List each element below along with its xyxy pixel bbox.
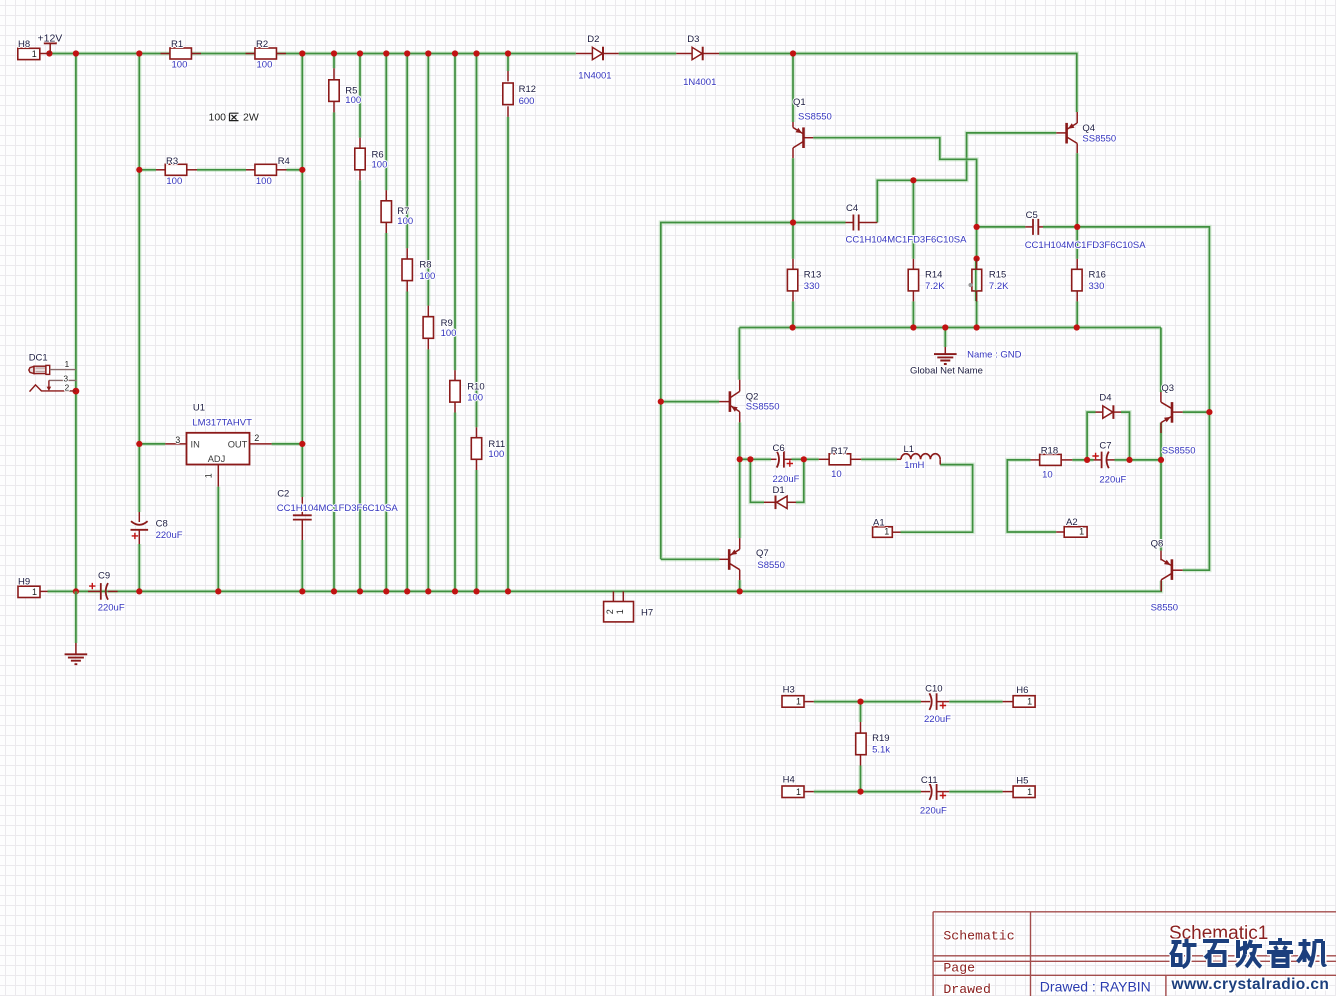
wire R16 to mid rail (1075, 301, 1079, 327)
wire x=661 to Q7 base (661, 557, 720, 561)
svg-text:100: 100 (172, 59, 188, 70)
svg-text:C9: C9 (98, 570, 110, 581)
svg-text:R15: R15 (989, 270, 1006, 281)
wire C10 right to H6 (949, 699, 1002, 703)
junction dot R14 node (910, 177, 916, 183)
wire Q1 emitter from top rail (791, 54, 795, 123)
wire vertical column x=139 top rail to U1 IN node (137, 54, 141, 444)
capacitor C4 CC1H104MC1FD3F6C10SA (846, 222, 854, 224)
wire C6 node to Q7 emitter (738, 459, 742, 538)
wire x=1209 Q3 base node down to Q8 base (1183, 412, 1210, 570)
wire U1 ADJ pin to bottom rail (216, 487, 220, 592)
svg-text:100: 100 (345, 95, 361, 106)
resistor R13 330 (792, 259, 794, 270)
resistor R16 330 (1076, 259, 1078, 270)
svg-text:10: 10 (831, 469, 842, 480)
wire R3 row from x=139 node (139, 168, 156, 172)
regulator U1 LM317TAHVT (165, 443, 186, 445)
junction dot R3 row right (299, 167, 305, 173)
svg-text:1: 1 (203, 473, 213, 478)
svg-text:1: 1 (615, 609, 625, 614)
svg-text:R8: R8 (419, 260, 431, 271)
svg-text:3: 3 (175, 435, 180, 445)
svg-text:R12: R12 (519, 84, 536, 95)
wire C7 right lead (1115, 458, 1130, 462)
svg-text:R2: R2 (256, 39, 268, 50)
wire Q3 node down to Q8 emitter (1159, 460, 1163, 551)
wire top rail D3 to Q4 emitter corner (719, 54, 1077, 113)
wire R18 left to A2 loop (1007, 460, 1056, 532)
wire Q1 collector to C4 node (792, 148, 794, 158)
transistor Q7 S8550 (719, 558, 729, 560)
wire bus column x=476 (R11) (474, 54, 478, 428)
resistor R4 (246, 169, 255, 171)
svg-text:100: 100 (419, 271, 435, 282)
svg-text:C4: C4 (846, 203, 858, 214)
svg-text:R14: R14 (925, 270, 942, 281)
wire Q3 emitter node vertical (1159, 423, 1163, 460)
svg-text:1: 1 (1027, 697, 1032, 707)
wire C7 node to Q3 emitter node (1130, 458, 1162, 462)
svg-text:A2: A2 (1066, 517, 1078, 528)
wire Q4 collector down (1076, 143, 1078, 153)
wire D4 loop left (1087, 412, 1095, 460)
wire Q1 base staircase to C5 node (813, 138, 976, 227)
svg-text:220uF: 220uF (773, 474, 800, 485)
svg-text:Q1: Q1 (793, 97, 806, 108)
svg-text:R16: R16 (1089, 270, 1106, 281)
svg-text:C11: C11 (921, 775, 938, 786)
svg-text:ADJ: ADJ (208, 454, 226, 464)
svg-text:H6: H6 (1016, 685, 1028, 696)
wire Q2 emitter to C6 node (739, 412, 741, 423)
svg-text:R17: R17 (831, 446, 848, 457)
header H6 (1003, 701, 1014, 703)
junction dot Q2 base node (658, 399, 664, 405)
svg-text:Page: Page (943, 961, 975, 976)
junction dot U1 IN node (136, 441, 142, 447)
junction dots mid rail (790, 324, 796, 330)
title block frame (933, 912, 1336, 996)
wire Q4 collector node to R16 (1075, 227, 1079, 259)
wire column x=302 C2 to bottom rail (300, 540, 304, 591)
svg-text:DC1: DC1 (29, 353, 48, 364)
svg-text:220uF: 220uF (924, 714, 951, 725)
wire mid GND stem (943, 328, 947, 348)
svg-text:220uF: 220uF (1099, 474, 1126, 485)
resistor R8 (406, 248, 408, 258)
capacitor C6 220uF (771, 458, 777, 460)
wire C6 to D1 node (750, 457, 771, 461)
power flag +12V (49, 43, 51, 53)
wire bus column x=386 (R7) (384, 54, 388, 191)
svg-text:1: 1 (1027, 787, 1032, 797)
header H8 (18, 48, 40, 59)
svg-text:D4: D4 (1099, 393, 1111, 404)
junction dot H3 row (857, 699, 863, 705)
diode D4 (1096, 411, 1103, 413)
wire bus column x=407 (R8) (405, 54, 409, 249)
wire C5 node to Q3/Q8 base column x=1209 (1077, 227, 1209, 412)
transistor Q1 SS8550 (792, 122, 794, 128)
svg-text:10: 10 (1042, 469, 1053, 480)
transistor Q8 S8550 (1160, 551, 1162, 561)
svg-text:L1: L1 (904, 444, 915, 455)
wire Q7 collector to bottom rail (738, 580, 742, 591)
wire C11 right to H5 (949, 789, 1002, 793)
wire C6 right lead to R17 (792, 457, 819, 461)
header A2 (1064, 527, 1087, 538)
junction dots C6 row (737, 456, 743, 462)
svg-text:5.1k: 5.1k (872, 745, 890, 756)
svg-text:220uF: 220uF (98, 603, 125, 614)
junction dot R3 row left (136, 167, 142, 173)
junction dots top rail (46, 50, 52, 56)
capacitor C9 220uF (88, 590, 101, 592)
svg-text:CC1H104MC1FD3F6C10SA: CC1H104MC1FD3F6C10SA (277, 503, 399, 514)
svg-text:330: 330 (1089, 281, 1105, 292)
wire C5 right to Q4 collector node (1043, 225, 1077, 229)
svg-text:2W: 2W (243, 111, 259, 123)
svg-text:330: 330 (804, 281, 820, 292)
junction dot C5 / R15 node (974, 224, 980, 230)
wire R3 to R4 (197, 168, 246, 172)
svg-text:2: 2 (65, 382, 70, 392)
wire vertical column x=302 top rail to OUT node (300, 54, 304, 444)
svg-text:IN: IN (191, 439, 200, 449)
resistor R6 (359, 138, 361, 149)
capacitor C5 CC1H104MC1FD3F6C10SA (1025, 226, 1033, 228)
wire D4 loop right (1121, 412, 1130, 460)
svg-text:220uF: 220uF (920, 805, 947, 816)
svg-text:H8: H8 (18, 39, 30, 50)
wire H4 to C11 (814, 789, 861, 793)
wire L1 to A1 loop (901, 465, 973, 533)
header A1 (873, 527, 893, 538)
resistor R12 (507, 71, 509, 81)
svg-text:1N4001: 1N4001 (578, 70, 611, 81)
diode D2 1N4001 (576, 53, 593, 55)
svg-text:100: 100 (488, 449, 504, 460)
wire bus column x=428 (R9) (426, 54, 430, 306)
junction dot DC1 pin2 (73, 388, 80, 395)
wire C6 node jumper (740, 457, 751, 461)
svg-text:100: 100 (257, 59, 273, 70)
svg-text:C10: C10 (925, 684, 942, 695)
svg-text:2: 2 (605, 609, 615, 614)
svg-text:220uF: 220uF (156, 530, 183, 541)
svg-text:H9: H9 (18, 577, 30, 588)
transistor Q4 SS8550 (1076, 112, 1078, 123)
connector H7 (612, 591, 614, 601)
svg-text:100: 100 (397, 216, 413, 227)
wire top rail D2 to D3 (619, 51, 677, 55)
svg-text:U1: U1 (193, 402, 205, 413)
svg-text:1: 1 (32, 49, 37, 59)
svg-text:R19: R19 (872, 733, 889, 744)
svg-text:1: 1 (32, 587, 37, 597)
svg-text:C8: C8 (156, 518, 168, 529)
svg-text:R10: R10 (467, 382, 484, 393)
junction dot H4 row (857, 789, 863, 795)
wire R14 to mid rail (911, 301, 915, 327)
svg-text:R4: R4 (278, 156, 290, 167)
junction dot Q3 base corner (1206, 409, 1212, 415)
wire column x=139 C8 to bottom rail (137, 544, 141, 591)
wire C4 node to R13 (791, 223, 795, 259)
svg-text:Q7: Q7 (756, 548, 769, 559)
svg-text:R3: R3 (166, 156, 178, 167)
svg-text:100: 100 (256, 176, 272, 187)
svg-text:100: 100 (166, 176, 182, 187)
ground GND global net (934, 354, 957, 364)
inductor L1 1mH (897, 458, 901, 460)
resistor R10 (454, 370, 456, 380)
svg-text:100: 100 (441, 328, 457, 339)
header H4 (782, 786, 804, 798)
wire D1 loop left (750, 459, 764, 502)
svg-text:1: 1 (1079, 527, 1084, 537)
wire R18 right to C7 node (1072, 458, 1093, 462)
wire +12V top rail H8 to D2 (49, 51, 575, 55)
wire mid GND rail (737, 328, 741, 380)
svg-text:100: 100 (209, 111, 227, 123)
svg-text:CC1H104MC1FD3F6C10SA: CC1H104MC1FD3F6C10SA (1025, 240, 1147, 251)
svg-text:H5: H5 (1016, 775, 1028, 786)
svg-text:SS8550: SS8550 (798, 111, 832, 122)
wire through R15 to mid rail (974, 259, 978, 301)
resistor R5 (333, 68, 335, 79)
svg-text:Schematic: Schematic (943, 929, 1014, 944)
svg-text:R18: R18 (1041, 445, 1058, 456)
wire Q3 base (1183, 410, 1210, 414)
resistor R11 (476, 427, 478, 437)
resistor R19 5.1k (860, 722, 862, 733)
svg-text:SS8550: SS8550 (1082, 134, 1116, 145)
svg-text:C7: C7 (1099, 441, 1111, 452)
svg-text:100: 100 (372, 160, 388, 171)
svg-text:C6: C6 (773, 443, 785, 454)
junction dots bottom rail (73, 588, 79, 594)
diode D3 1N4001 (676, 53, 692, 55)
wire bus column x=360 (R6) (358, 54, 362, 138)
resistor R17 10 (819, 458, 830, 460)
wire R4 to x=302 node (287, 168, 303, 172)
wire R14 node down to R14 (911, 180, 915, 258)
resistor R18 10 (1031, 459, 1040, 461)
wire column x=139 IN node to C8 (137, 444, 141, 512)
resistor R14 7.2K (912, 259, 914, 270)
svg-text:SS8550: SS8550 (1162, 445, 1196, 456)
svg-text:H7: H7 (641, 608, 653, 619)
header H5 (1003, 791, 1014, 793)
resistor R7 (385, 190, 387, 200)
svg-text:R13: R13 (804, 270, 821, 281)
wire R17 to L1 (861, 457, 897, 461)
svg-text:Drawed : RAYBIN: Drawed : RAYBIN (1040, 979, 1151, 995)
svg-text:A1: A1 (873, 517, 885, 528)
svg-text:H4: H4 (783, 775, 795, 786)
svg-text:CC1H104MC1FD3F6C10SA: CC1H104MC1FD3F6C10SA (846, 235, 968, 246)
svg-text:OUT: OUT (228, 439, 248, 449)
svg-text:7.2K: 7.2K (925, 281, 945, 292)
svg-text:C5: C5 (1026, 210, 1038, 221)
resistor R1 (161, 53, 171, 55)
svg-text:1: 1 (796, 697, 801, 707)
svg-text:Global Net Name: Global Net Name (910, 365, 983, 376)
resistor R3 (156, 169, 165, 171)
svg-text:LM317TAHVT: LM317TAHVT (192, 417, 252, 428)
header H9 (18, 586, 40, 597)
diode D1 (764, 501, 776, 503)
ground symbol left (74, 591, 78, 643)
wire C5 node down to R15 (974, 227, 978, 259)
wire R19 column (858, 702, 862, 722)
svg-text:H3: H3 (783, 685, 795, 696)
svg-text:SS8550: SS8550 (746, 402, 780, 413)
svg-text:Q8: Q8 (1151, 539, 1164, 550)
capacitor C2 CC1H104MC1FD3F6C10SA (301, 497, 303, 515)
svg-text:1mH: 1mH (904, 460, 924, 471)
junction dot R15 top (974, 256, 980, 262)
svg-text:Name : GND: Name : GND (967, 350, 1022, 361)
capacitor C11 220uF (921, 791, 930, 793)
svg-text:Drawed: Drawed (943, 982, 990, 996)
watermark CJK logo kuangshi shouyinji (1171, 939, 1197, 967)
svg-text:1: 1 (65, 359, 70, 369)
svg-text:D1: D1 (773, 485, 785, 496)
svg-text:C2: C2 (277, 489, 289, 500)
wire D1 loop right (796, 459, 804, 502)
transistor Q2 SS8550 (739, 380, 741, 392)
svg-text:1: 1 (796, 787, 801, 797)
svg-text:www.crystalradio.cn: www.crystalradio.cn (1171, 976, 1330, 993)
svg-text:100: 100 (467, 393, 483, 404)
wire bottom ground rail (48, 581, 1162, 592)
wire U1 pin2 to x=302 node (272, 442, 303, 446)
svg-text:1N4001: 1N4001 (683, 77, 716, 88)
svg-text:S8550: S8550 (1151, 602, 1178, 613)
resistor R9 (427, 306, 429, 316)
junction dots C7 row (1084, 457, 1090, 463)
svg-text:600: 600 (519, 96, 535, 107)
svg-text:D3: D3 (687, 34, 699, 45)
transistor Q3 SS8550 (1160, 392, 1162, 402)
svg-text:2: 2 (254, 433, 259, 443)
junction dot Q4 collector / C5 node (1074, 224, 1080, 230)
wire x=661 node to Q2 base (661, 400, 719, 404)
wire bus column x=455 (R10) (453, 54, 457, 371)
wire U1 pin3 from x=139 node (139, 442, 165, 446)
resistor R15 7.2K (976, 259, 978, 270)
svg-text:Q4: Q4 (1082, 123, 1095, 134)
svg-text:+12V: +12V (38, 32, 63, 44)
wire column x=302 OUT node to C2 (300, 444, 304, 497)
capacitor C10 220uF (921, 701, 930, 703)
wire mid rail right corner down to Q3 collector (1159, 328, 1163, 393)
junction dot U1 OUT node (299, 441, 305, 447)
resistor R2 (246, 53, 256, 55)
wire C5 left lead (977, 225, 1026, 229)
wire R13 to mid rail (791, 301, 795, 327)
wire C4 right to R14 node staircase (877, 133, 1056, 223)
junction dot Q1 collector / C4 node (790, 219, 796, 225)
wire H3 to C10 (814, 699, 861, 703)
svg-text:Q3: Q3 (1161, 383, 1174, 394)
svg-text:S8550: S8550 (757, 560, 784, 571)
wire bus column x=508 (R12) (506, 54, 510, 72)
capacitor C8 220uF (138, 512, 140, 522)
svg-text:R1: R1 (171, 39, 183, 50)
wire bus column x=334 (R5) (332, 54, 336, 69)
wire node C4 to base-drive column x=661 (661, 223, 793, 560)
svg-text:7.2K: 7.2K (989, 281, 1009, 292)
svg-text:1: 1 (884, 527, 889, 537)
header H3 (782, 696, 804, 708)
wire C4 left lead (793, 220, 846, 224)
wire vertical +12V column x=76 (74, 54, 78, 592)
capacitor C7 220uF (1094, 459, 1102, 461)
svg-text:D2: D2 (587, 34, 599, 45)
